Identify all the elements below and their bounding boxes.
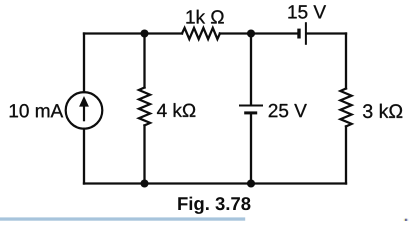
wire top-left segment (corner to node A to 1k resistor)	[84, 32, 182, 34]
wire middle-left branch lower (4k resistor to node C)	[143, 125, 145, 183]
wire top-right segment (15V battery to top-right corner)	[307, 32, 346, 34]
value label 15 V	[288, 5, 326, 18]
value label 3 k ohm	[363, 104, 402, 118]
battery V1 15V left plate (short thick)	[297, 29, 300, 39]
wire bottom segment (bottom-right corner to bottom-left corner)	[84, 182, 346, 184]
current source I1 circle	[66, 92, 103, 129]
wire top-middle segment (1k resistor to node B to 15V battery)	[220, 32, 298, 34]
value label 25 V	[269, 104, 307, 117]
wire middle-left branch upper (node A to 4k resistor)	[143, 34, 145, 88]
value label 4 k ohm	[157, 103, 195, 117]
wire left side upper (current source to top-left corner)	[83, 34, 85, 93]
battery V2 25V top plate (long thin)	[239, 105, 263, 107]
battery V1 15V right plate (long thin)	[305, 22, 307, 45]
node B junction dot (top of 25V branch)	[247, 29, 255, 37]
battery V2 25V bottom plate (short thick)	[244, 111, 257, 114]
resistor R1 1k ohm (horizontal zigzag)	[182, 28, 220, 39]
current source I1 arrow shaft	[83, 106, 85, 121]
page underline bar	[0, 217, 245, 220]
value label 10 mA	[10, 104, 63, 117]
resistor R3 3k ohm (vertical zigzag)	[340, 89, 351, 127]
resistor R2 4k ohm (vertical zigzag)	[139, 88, 150, 126]
value label 1k ohm	[186, 10, 223, 24]
wire left side lower (bottom-left corner up to current source)	[83, 129, 85, 184]
wire right side lower (3k resistor to bottom-right corner)	[345, 126, 347, 183]
node D junction dot (bottom of 25V branch)	[247, 179, 255, 187]
wire middle branch upper (node B to 25V battery)	[250, 34, 252, 105]
caption Fig. 3.78	[178, 197, 250, 214]
node A junction dot (top of 4k branch)	[140, 29, 148, 37]
node C junction dot (bottom of 4k branch)	[140, 179, 148, 187]
wire middle branch lower (25V battery to node D)	[250, 115, 252, 184]
page corner mark	[404, 219, 405, 221]
current source I1 arrowhead	[79, 96, 89, 107]
wire right side upper (corner down to 3k resistor)	[345, 34, 347, 89]
